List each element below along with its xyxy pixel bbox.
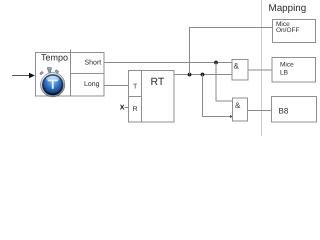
wire Long output to RT T input	[104, 85, 129, 87]
gate AND2	[233, 98, 248, 121]
junction dot RT output branch A	[188, 73, 192, 77]
svg-text:R: R	[133, 106, 138, 113]
RT T/R divider	[129, 96, 142, 98]
block Mice LB	[272, 58, 316, 83]
junction dot on Short wire	[214, 61, 218, 65]
block B8	[272, 97, 317, 123]
svg-text:X: X	[120, 105, 125, 112]
crown button	[47, 67, 51, 70]
stopwatch icon	[40, 67, 65, 97]
side knob left	[40, 71, 44, 75]
svg-text:Short: Short	[85, 59, 102, 67]
Tempo Short/Long divider	[71, 73, 105, 75]
svg-text:&: &	[234, 62, 240, 71]
svg-text:Long: Long	[84, 81, 100, 88]
svg-text:Tempo: Tempo	[41, 53, 68, 63]
svg-text:Mapping: Mapping	[269, 3, 307, 14]
wire AND2 output to B8	[248, 110, 272, 112]
junction dot RT output branch B	[201, 73, 205, 77]
T glyph	[48, 80, 58, 89]
svg-text:On/OFF: On/OFF	[276, 27, 300, 34]
mapping section separator	[261, 0, 263, 136]
side knob right	[55, 70, 59, 73]
arrowhead into AND2	[230, 115, 233, 118]
svg-text:Mice: Mice	[280, 62, 294, 69]
svg-text:RT: RT	[151, 76, 165, 88]
Tempo internal divider vertical	[70, 50, 72, 97]
wire AND1 output to Mice LB	[248, 69, 272, 71]
svg-text:B8: B8	[279, 107, 289, 116]
block RT timer relay	[129, 71, 175, 123]
watch body	[41, 73, 65, 97]
block Tempo (timer) outer box	[36, 53, 105, 97]
gate AND1	[232, 60, 248, 81]
wire down to AND2 bottom input	[203, 75, 231, 117]
wire Short output	[104, 62, 232, 64]
wire up to Mice On/OFF	[190, 28, 273, 75]
svg-text:&: &	[235, 101, 241, 110]
wire RT output	[174, 74, 232, 76]
RT pin column divider	[141, 71, 143, 123]
svg-text:LB: LB	[280, 70, 288, 77]
wire Short branch down to AND2 input	[216, 63, 233, 102]
block Mice On/OFF	[273, 20, 316, 43]
input arrow	[12, 73, 35, 78]
wire X to R input	[125, 107, 129, 109]
svg-text:T: T	[133, 84, 138, 91]
